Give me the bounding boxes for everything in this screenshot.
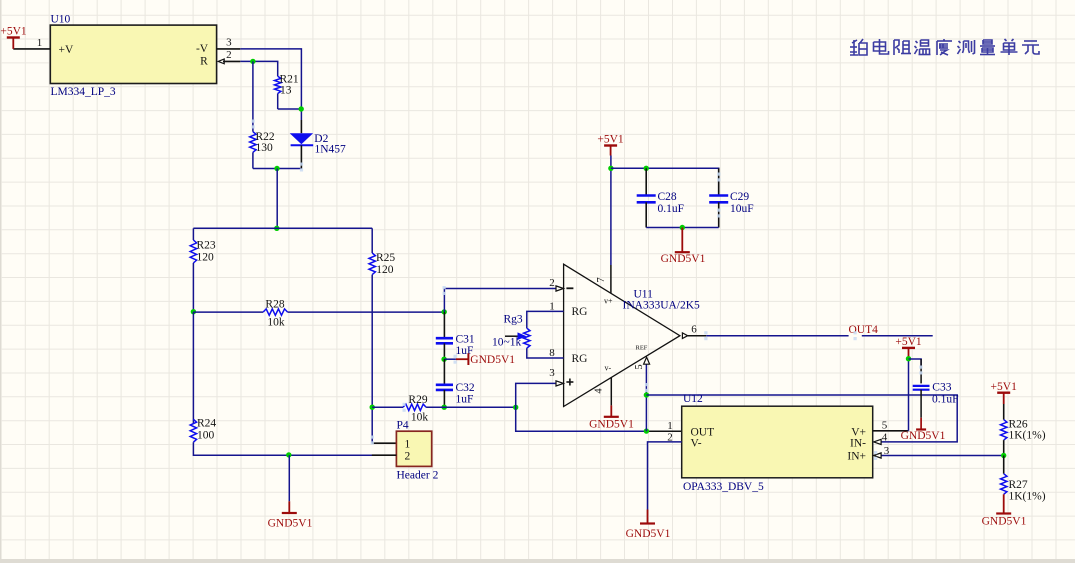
node R29/pin3 junction — [513, 405, 518, 410]
svg-text:GND5V1: GND5V1 — [661, 253, 706, 265]
U12 pin3 wire — [881, 455, 1003, 457]
wire R24 column — [192, 312, 194, 423]
wire trunk down to divider row — [276, 169, 278, 229]
svg-text:5: 5 — [634, 364, 645, 369]
svg-text:4: 4 — [594, 388, 605, 394]
svg-text:U10: U10 — [51, 14, 71, 26]
svg-text:+5V1: +5V1 — [895, 336, 922, 348]
node C28 top junction — [644, 166, 649, 171]
wire R27 top — [1003, 456, 1005, 474]
power port +5V1 (U11) — [604, 144, 617, 146]
resistor R22 — [250, 132, 256, 153]
capacitor C32 — [443, 359, 445, 385]
svg-text:10k: 10k — [411, 412, 429, 424]
wire P4 pin1 entry — [372, 442, 396, 444]
resistor R26 — [1001, 420, 1007, 441]
svg-text:1N457: 1N457 — [315, 144, 347, 156]
svg-text:100: 100 — [197, 430, 215, 442]
svg-text:+5V1: +5V1 — [0, 26, 27, 38]
svg-text:10k: 10k — [267, 317, 285, 329]
U11 plus sign — [566, 381, 573, 383]
svg-text:INA333UA/2K5: INA333UA/2K5 — [623, 300, 701, 312]
svg-text:GND5V1: GND5V1 — [268, 518, 313, 530]
node REF/feedback junction — [644, 392, 649, 397]
svg-text:R24: R24 — [197, 418, 216, 430]
wire R29 row left — [372, 406, 403, 408]
wire R29 row right — [426, 406, 516, 408]
svg-text:C33: C33 — [932, 381, 951, 393]
wire R26 top — [1003, 404, 1005, 420]
svg-text:13: 13 — [280, 85, 292, 97]
svg-text:10~1k: 10~1k — [492, 337, 521, 349]
svg-text:+V: +V — [59, 44, 74, 56]
ground GND5V1 (P4 row) — [288, 501, 290, 513]
U12 pin5 wire — [873, 430, 909, 432]
wire V+ column — [610, 156, 612, 266]
U12 pin3 input arrow — [874, 453, 882, 458]
svg-text:+5V1: +5V1 — [597, 134, 624, 146]
svg-text:10uF: 10uF — [730, 203, 754, 215]
Rg3 wiper arrow — [505, 335, 519, 337]
wire R25 top — [371, 228, 373, 253]
svg-text:1: 1 — [667, 420, 673, 432]
wire +5V to pin5 — [908, 357, 910, 431]
node +5V/C33 junction — [906, 356, 911, 361]
wire R26 bottom — [1003, 440, 1005, 455]
wire pin3 -V to D2 anode — [216, 48, 240, 50]
wire decoupling top row — [611, 168, 719, 195]
ground GND5V1 (U11 pin4) — [610, 405, 612, 416]
svg-text:C31: C31 — [456, 334, 475, 346]
wire C33 branch — [909, 359, 922, 367]
node R28/C31 junction — [442, 309, 447, 314]
resistor R27 — [1001, 474, 1007, 495]
wire OUT4 segment a — [706, 335, 848, 337]
node +5V/C28 junction — [608, 166, 613, 171]
svg-text:R28: R28 — [265, 299, 284, 311]
svg-text:6: 6 — [691, 324, 697, 336]
svg-text:3: 3 — [226, 37, 232, 49]
svg-text:v+: v+ — [604, 296, 613, 305]
svg-text:0.1uF: 0.1uF — [658, 203, 685, 215]
U10 pin 2 input arrow — [218, 59, 224, 64]
wire R25 to pin1 row — [371, 275, 373, 444]
U10 pin 1 wire — [13, 48, 50, 50]
svg-text:2: 2 — [405, 451, 411, 463]
U11 pin2 input arrow — [556, 286, 564, 291]
svg-text:R: R — [200, 56, 208, 68]
svg-text:C29: C29 — [730, 191, 749, 203]
U12 pin4 input arrow — [874, 439, 882, 444]
svg-text:R23: R23 — [197, 240, 216, 252]
svg-text:R25: R25 — [376, 252, 395, 264]
wire REF column — [645, 358, 647, 431]
ground GND5V1 (U12 pin2) — [647, 510, 649, 524]
svg-text:Rg3: Rg3 — [504, 314, 523, 326]
ground GND5V1 (C31) sideways — [444, 358, 456, 360]
node R25/R29 junction — [370, 405, 375, 410]
svg-text:2: 2 — [226, 49, 232, 61]
resistor R28 — [263, 309, 288, 315]
svg-text:V-: V- — [691, 438, 702, 450]
svg-text:-V: -V — [196, 43, 209, 55]
node R21/D2 junction — [299, 106, 304, 111]
svg-text:1uF: 1uF — [456, 394, 474, 406]
ground GND5V1 (C28/C29) — [681, 228, 683, 253]
svg-text:GND5V1: GND5V1 — [901, 430, 946, 442]
svg-text:0.1uF: 0.1uF — [932, 394, 959, 406]
resistor R29 — [403, 404, 426, 410]
title text (Chinese) — [850, 39, 1039, 55]
capacitor C28 — [645, 168, 647, 195]
node pin2/R22 junction — [250, 59, 255, 64]
svg-text:120: 120 — [197, 252, 215, 264]
svg-text:5: 5 — [882, 420, 888, 432]
node pin3/REF-OUT junction — [644, 428, 649, 433]
resistor R24 — [190, 419, 196, 442]
power port +5V1 (R26) — [997, 392, 1010, 394]
wire R28 row right — [288, 311, 445, 313]
power port +5V1 (C33) — [902, 347, 915, 349]
U12 pin2 gnd wire — [648, 442, 682, 510]
svg-text:P4: P4 — [397, 420, 409, 432]
IC U10 body — [50, 25, 216, 83]
ground GND5V1 (C33) — [920, 418, 922, 430]
wire R23 to R28 row — [192, 263, 194, 312]
wire pin2 horizontal — [444, 289, 556, 313]
U11 pin6 output arrow — [688, 335, 707, 337]
svg-text:GND5V1: GND5V1 — [982, 515, 1027, 527]
power port +5V1 (U10) — [7, 36, 20, 38]
node trunk/divider junction — [274, 226, 279, 231]
U11 pin3 input arrow — [556, 381, 564, 386]
svg-text:R27: R27 — [1009, 479, 1028, 491]
wire R21 bottom to diode line — [278, 108, 302, 110]
wire decoupling bottom row — [646, 227, 719, 229]
capacitor C33 — [920, 359, 922, 383]
svg-text:R26: R26 — [1009, 418, 1028, 430]
svg-text:OPA333_DBV_5: OPA333_DBV_5 — [683, 481, 764, 493]
svg-text:IN-: IN- — [850, 438, 866, 450]
svg-text:R29: R29 — [408, 394, 427, 406]
svg-text:RG: RG — [572, 353, 588, 365]
U11 pin4 stub — [610, 378, 612, 406]
node C32/R29 junction — [442, 405, 447, 410]
wire divider top row — [193, 227, 372, 229]
node R22/D2 bottom junction — [274, 166, 279, 171]
P4 pin2 entry — [372, 454, 397, 456]
svg-text:130: 130 — [256, 142, 274, 154]
svg-text:120: 120 — [376, 264, 394, 276]
svg-text:OUT4: OUT4 — [849, 324, 879, 336]
svg-text:LM334_LP_3: LM334_LP_3 — [51, 86, 116, 98]
svg-text:RG: RG — [572, 306, 588, 318]
svg-text:Header 2: Header 2 — [397, 470, 439, 482]
svg-text:1: 1 — [37, 37, 43, 49]
svg-text:IN+: IN+ — [847, 451, 866, 463]
resistor R23 — [190, 240, 196, 263]
svg-text:GND5V1: GND5V1 — [470, 354, 515, 366]
wire pin3 net — [516, 383, 647, 431]
wire bottom of R22/D2 row — [253, 168, 302, 170]
capacitor C31 — [443, 312, 445, 338]
svg-text:2: 2 — [549, 277, 555, 289]
svg-text:C28: C28 — [658, 191, 677, 203]
svg-text:C32: C32 — [456, 382, 475, 394]
op-amp U11 triangle — [564, 264, 680, 406]
wire R28 row left — [193, 311, 263, 313]
wire OUT4 segment b — [862, 335, 933, 337]
node R26/R27/IN+ junction — [1001, 453, 1006, 458]
IC U12 body — [682, 406, 873, 478]
wire pin1 to Rg3 — [527, 311, 564, 328]
svg-text:1K(1%): 1K(1%) — [1009, 490, 1046, 502]
svg-text:U12: U12 — [683, 393, 703, 405]
wire R24 bottom corner — [193, 442, 396, 455]
svg-text:v-: v- — [605, 363, 612, 372]
svg-text:4: 4 — [882, 432, 888, 444]
wire Rg3 to pin8 — [527, 348, 564, 358]
resistor R21 — [275, 76, 281, 93]
svg-text:3: 3 — [549, 367, 555, 379]
node C31/GND junction — [441, 357, 446, 362]
node pin2row/GND junction — [286, 452, 291, 457]
U11 minus sign — [566, 287, 573, 289]
wire feedback to IN- — [646, 395, 957, 442]
wire pin2 R to R21 top — [240, 61, 277, 76]
connector P4 body — [396, 431, 431, 466]
potentiometer Rg3 — [524, 328, 530, 348]
svg-text:+5V1: +5V1 — [991, 381, 1018, 393]
diode D2 — [300, 120, 302, 133]
wire R23 column — [192, 228, 194, 240]
svg-text:GND5V1: GND5V1 — [589, 419, 634, 431]
hotspot markers — [704, 331, 707, 340]
wire GND branch — [288, 455, 290, 501]
node C28C29/GND junction — [680, 225, 685, 230]
svg-text:1K(1%): 1K(1%) — [1009, 430, 1046, 442]
node R23/R28 junction — [191, 309, 196, 314]
svg-text:GND5V1: GND5V1 — [626, 528, 671, 540]
svg-text:1: 1 — [405, 439, 411, 451]
wire R22 bottom — [252, 152, 254, 168]
svg-text:7: 7 — [596, 277, 607, 282]
svg-text:REF: REF — [636, 345, 648, 352]
U11 REF arrow — [644, 357, 650, 364]
resistor R25 — [369, 253, 375, 275]
wire R22 branch down — [252, 61, 254, 131]
capacitor C29 — [718, 168, 720, 195]
ground GND5V1 (R27) — [1003, 494, 1005, 513]
